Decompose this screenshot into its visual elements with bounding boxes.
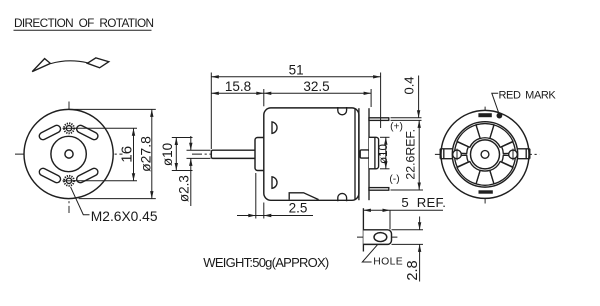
direction-of-rotation curved arrow bbox=[32, 58, 109, 72]
dimension 2.8 extension lines bbox=[392, 230, 424, 245]
motor can body bbox=[264, 108, 359, 200]
front view vent slot TR bbox=[80, 129, 94, 136]
front view vertical centerline bbox=[68, 102, 70, 214]
end bell flange bbox=[359, 108, 369, 200]
dimension 0.4 extension lines bbox=[391, 118, 422, 121]
rear view horizontal centerline bbox=[435, 153, 540, 155]
dimension 2.8 line with arrows bbox=[418, 217, 421, 282]
can bottom locating tab bbox=[289, 193, 318, 200]
dimension 2.5 extension lines bbox=[256, 173, 264, 219]
svg-text:(+): (+) bbox=[390, 122, 403, 133]
svg-text:22.6REF.: 22.6REF. bbox=[404, 129, 418, 180]
svg-text:51: 51 bbox=[289, 62, 304, 77]
terminal (+) strip bbox=[369, 118, 389, 121]
dimension dia 2.3 line with arrows bbox=[189, 136, 192, 206]
rear vent wedge E-small bbox=[502, 142, 516, 154]
red mark leader bbox=[492, 93, 499, 114]
rear view right terminal tab bbox=[517, 149, 530, 159]
rear view left terminal tab bbox=[440, 149, 453, 159]
dimension 16 line with arrows bbox=[132, 128, 135, 181]
terminal detail centerline bbox=[357, 236, 397, 238]
front bearing boss bbox=[255, 138, 264, 171]
rear view center boss circle bbox=[471, 140, 500, 169]
svg-text:ø10: ø10 bbox=[378, 144, 390, 164]
can crimp line bbox=[354, 109, 356, 201]
svg-text:ø27.8: ø27.8 bbox=[138, 136, 154, 172]
rear view left screw hole bbox=[453, 149, 462, 161]
rear vent wedge W-small bbox=[455, 142, 469, 154]
terminal (-) strip bbox=[369, 188, 389, 191]
svg-text:ø2.3: ø2.3 bbox=[176, 175, 191, 202]
dimension dia 10 front extension lines bbox=[172, 138, 193, 171]
svg-text:2.5: 2.5 bbox=[289, 201, 308, 216]
dimension 15.8 line with arrows bbox=[211, 92, 263, 95]
rear vent wedge N bbox=[476, 124, 494, 139]
rear vent wedge NE bbox=[490, 125, 513, 147]
rear vent wedge SE bbox=[490, 162, 513, 184]
dimension dia 10 rear line with arrows bbox=[384, 137, 387, 169]
rear view top brush cap tab (filled) bbox=[478, 113, 491, 117]
rear shaft stub bbox=[360, 150, 369, 158]
dimension 16 extension lines bbox=[74, 128, 137, 181]
dimension dia 10 front line with arrows bbox=[175, 138, 178, 171]
leader HOLE bbox=[362, 245, 377, 262]
svg-text:5 REF.: 5 REF. bbox=[401, 195, 446, 210]
rear view right screw hole bbox=[509, 149, 518, 161]
dimension 0.4 line with arrow bbox=[417, 76, 420, 118]
dimension 22.6REF extension line bbox=[391, 189, 424, 191]
svg-text:0.4: 0.4 bbox=[401, 76, 416, 94]
svg-text:15.8: 15.8 bbox=[225, 79, 251, 94]
dimension 2.5 line with arrows bbox=[237, 214, 313, 217]
dimension 15.8/32.5 extension lines bbox=[264, 89, 371, 107]
front view vent slot BL bbox=[43, 172, 57, 179]
dimension 32.5 line with arrows bbox=[264, 92, 371, 95]
front view top screw hole M2.6 bbox=[63, 123, 76, 133]
rear boss inner line bbox=[374, 137, 376, 169]
dimension dia 27.8 extension lines bbox=[69, 109, 156, 198]
rear bearing boss bbox=[369, 137, 379, 169]
dimension dia 27.8 line with arrows bbox=[150, 109, 153, 198]
rear vent wedge SW bbox=[457, 162, 480, 184]
dimension 5REF line with arrows bbox=[363, 209, 443, 212]
dimension dia 2.3 extension lines bbox=[187, 150, 211, 158]
front view shaft hole circle bbox=[65, 150, 73, 158]
rear vent wedge NW bbox=[457, 125, 480, 147]
dimension 22.6REF line with arrows bbox=[418, 120, 421, 190]
dimension 51 extension lines bbox=[211, 73, 380, 150]
can D vent top bbox=[272, 122, 277, 133]
svg-text:WEIGHT:50g(APPROX): WEIGHT:50g(APPROX) bbox=[203, 255, 329, 270]
svg-text:RED MARK: RED MARK bbox=[499, 89, 557, 101]
rear vent wedge WSW-small bbox=[455, 155, 469, 167]
front view outer circle (motor flange, dia 27.8) bbox=[24, 109, 113, 198]
rear view bottom brush cap tab (filled) bbox=[479, 190, 493, 193]
rear vent wedge ESE-small bbox=[502, 155, 516, 167]
front view vent slot TL bbox=[43, 129, 57, 136]
front view bottom screw hole M2.6 bbox=[63, 176, 76, 186]
rear view shaft end circle bbox=[481, 151, 489, 159]
title DIRECTION OF ROTATION bbox=[14, 16, 154, 30]
svg-text:M2.6X0.45: M2.6X0.45 bbox=[91, 209, 158, 224]
rear view vertical centerline bbox=[484, 107, 486, 204]
terminal detail oval hole bbox=[374, 233, 387, 242]
svg-text:(-): (-) bbox=[389, 174, 399, 185]
dimension dia 10 rear extension lines bbox=[380, 137, 390, 169]
rear view outer circle bbox=[441, 110, 529, 198]
svg-text:32.5: 32.5 bbox=[303, 79, 329, 94]
leader M2.6X0.45 bbox=[71, 187, 90, 215]
terminal detail tab bbox=[363, 230, 391, 245]
svg-text:16: 16 bbox=[118, 146, 135, 163]
rear view end bell circle bbox=[452, 122, 517, 187]
svg-text:HOLE: HOLE bbox=[373, 256, 403, 267]
dimension 5REF extension line right bbox=[389, 210, 391, 229]
shaft bbox=[211, 150, 256, 158]
dimension 51 line with arrows bbox=[211, 75, 380, 78]
side view axis centerline bbox=[192, 153, 384, 155]
svg-text:DIRECTION OF ROTATION: DIRECTION OF ROTATION bbox=[14, 16, 153, 30]
svg-text:ø10: ø10 bbox=[160, 143, 175, 166]
rear vent wedge S bbox=[476, 170, 494, 185]
svg-text:2.8: 2.8 bbox=[405, 260, 421, 280]
front view center boss circle bbox=[51, 136, 86, 171]
red mark dot bbox=[497, 113, 503, 119]
front view vent slot BR bbox=[80, 172, 94, 179]
can bottom U notch bbox=[338, 193, 347, 201]
terminal detail end bell face line bbox=[362, 208, 364, 251]
can D vent bottom bbox=[272, 177, 277, 189]
front view horizontal centerline bbox=[15, 153, 123, 155]
can top U notch bbox=[338, 107, 347, 115]
